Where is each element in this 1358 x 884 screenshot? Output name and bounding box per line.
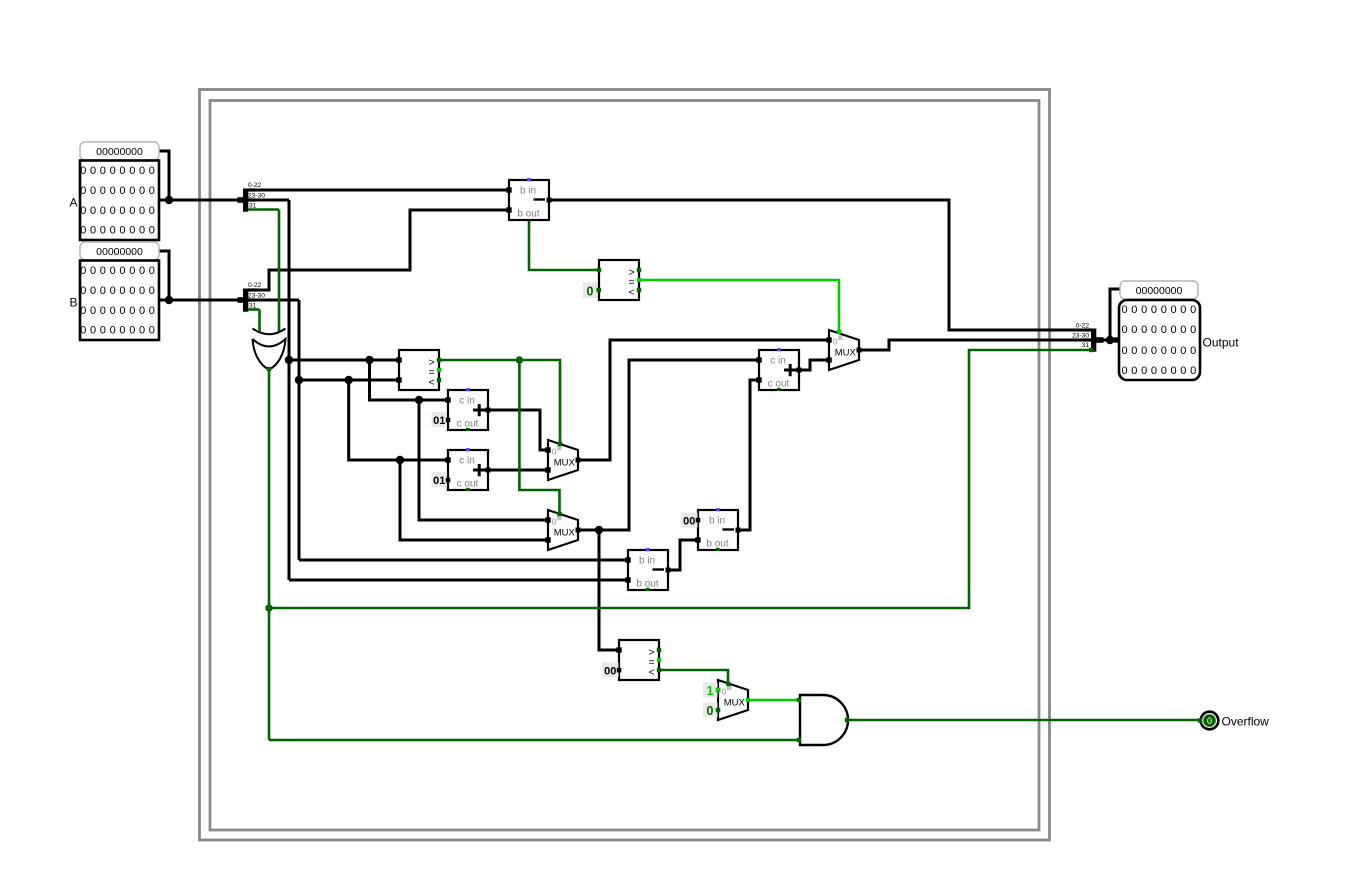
svg-text:0: 0 bbox=[707, 704, 714, 718]
node B junction bbox=[165, 296, 173, 304]
wire comparator U5 greater output to mux M2 select bbox=[439, 360, 560, 444]
node sign junction bbox=[265, 604, 272, 611]
adder A1 bbox=[448, 388, 488, 431]
svg-text:b out: b out bbox=[517, 208, 539, 219]
svg-text:B: B bbox=[70, 296, 78, 310]
wire end caps bright green bbox=[637, 278, 841, 702]
svg-text:MUX: MUX bbox=[835, 348, 857, 359]
wire Output probe tap bbox=[1110, 289, 1120, 340]
wire mux M2 output to mux M1 bbox=[578, 340, 829, 460]
wire subtractor U6 output to subtractor U7 bbox=[668, 540, 698, 570]
wire B exp branch to mux M3 bbox=[400, 460, 548, 540]
svg-text:0: 0 bbox=[833, 336, 838, 346]
node mux M3 output junction bbox=[595, 526, 603, 534]
mux M4 bbox=[718, 680, 748, 720]
wire A exp to comparator U5 bbox=[289, 359, 399, 362]
svg-text:1: 1 bbox=[707, 684, 714, 698]
probe B hex value bbox=[80, 242, 159, 260]
mux M1 bbox=[829, 330, 859, 370]
svg-text:c out: c out bbox=[768, 378, 790, 389]
wire end caps green bbox=[267, 268, 1202, 742]
wire B bits 0-22 up jog bbox=[246, 210, 509, 290]
wire mux M3 output to adder A3 bbox=[578, 360, 759, 530]
svg-text:Output: Output bbox=[1203, 336, 1240, 350]
svg-text:Overflow: Overflow bbox=[1222, 715, 1270, 729]
wire sign to AND gate bbox=[269, 739, 799, 742]
svg-text:b out: b out bbox=[636, 578, 658, 589]
svg-text:23-30: 23-30 bbox=[248, 292, 265, 299]
wire mux M3 branch to comparator U8 bbox=[599, 530, 619, 650]
wire A exp to subtractor U6 bbox=[289, 579, 628, 582]
comparator U2 bbox=[599, 260, 641, 300]
svg-text:<: < bbox=[428, 377, 434, 389]
wire AND gate output to Overflow pin bbox=[847, 719, 1200, 722]
svg-text:b in: b in bbox=[520, 186, 536, 197]
and gate G1 bbox=[800, 695, 848, 745]
svg-text:0: 0 bbox=[552, 516, 557, 526]
constant C7 value 0 (mux M4 input 1) bbox=[703, 703, 720, 718]
subtractor U1 bbox=[509, 178, 549, 220]
adder A2 bbox=[448, 448, 488, 491]
input pin B bbox=[80, 261, 159, 341]
wire subtractor U7 output to adder A3 bbox=[738, 380, 759, 530]
subtractor U7 bbox=[698, 508, 738, 551]
circuit border frame inner bbox=[210, 101, 1039, 831]
svg-text:0: 0 bbox=[1207, 716, 1212, 726]
wire mux M4 output to AND gate bbox=[748, 699, 799, 702]
wire A exp branch down to adder bbox=[370, 360, 449, 400]
svg-text:31: 31 bbox=[1082, 342, 1090, 349]
wire subtractor U1 output to output merger bbox=[549, 200, 1092, 330]
svg-text:b in: b in bbox=[639, 556, 655, 567]
svg-text:31: 31 bbox=[249, 303, 257, 310]
constant C1 value 0 (comparator U2 input) bbox=[583, 282, 601, 298]
svg-text:01: 01 bbox=[433, 415, 445, 427]
wire sign bit to output merger bbox=[269, 350, 1092, 608]
probe A hex value bbox=[80, 142, 159, 160]
wire A exp branch to mux M3 bbox=[419, 400, 548, 520]
svg-text:0-22: 0-22 bbox=[248, 282, 262, 289]
svg-text:00000000: 00000000 bbox=[96, 146, 143, 158]
wire B exp branch down to adder A2 bbox=[349, 380, 448, 460]
circuit border frame outer bbox=[200, 90, 1050, 841]
constant C6 value 1 (mux M4 input 0) bbox=[703, 683, 720, 698]
svg-text:01: 01 bbox=[433, 475, 445, 487]
node Output junction bbox=[1106, 336, 1114, 344]
svg-text:MUX: MUX bbox=[554, 528, 576, 539]
svg-text:00000000: 00000000 bbox=[1136, 285, 1183, 297]
node B exp junction 2 bbox=[345, 376, 353, 384]
wire B probe tap bbox=[159, 251, 169, 300]
adder A3 bbox=[759, 348, 799, 391]
wire B 23-30 vertical trunk bbox=[298, 300, 301, 560]
node B exp junction 3 bbox=[396, 456, 404, 464]
svg-text:b out: b out bbox=[706, 538, 728, 549]
wire B output to splitter bbox=[159, 299, 245, 302]
node B exp junction 1 bbox=[295, 376, 303, 384]
wire adder A2 output to mux M2 bbox=[488, 469, 548, 472]
wire A sign bit to xor bbox=[278, 210, 281, 333]
svg-text:0-22: 0-22 bbox=[248, 182, 262, 189]
splitter S1 (input A) bbox=[238, 188, 280, 211]
svg-text:c out: c out bbox=[457, 418, 479, 429]
wire adder A3 output to mux M1 bbox=[799, 360, 829, 370]
node A junction bbox=[165, 196, 173, 204]
wire comparator U2 equal output to mux M1 select bbox=[639, 280, 839, 333]
svg-text:23-30: 23-30 bbox=[1072, 333, 1089, 340]
svg-text:MUX: MUX bbox=[724, 698, 746, 709]
wire end caps black bbox=[396, 187, 1119, 652]
wire subtractor U1 borrow-out to comparator U2 bbox=[529, 220, 599, 270]
constant C4 value 00 (subtractor U7 input) bbox=[681, 513, 700, 528]
output pin Overflow bbox=[1201, 712, 1219, 730]
constant C5 value 00 (comparator U8 input) bbox=[602, 663, 621, 678]
wire B exp to comparator U5 bbox=[299, 379, 399, 382]
mux M3 bbox=[548, 510, 578, 550]
xor gate X1 bbox=[253, 329, 286, 370]
svg-text:23-30: 23-30 bbox=[248, 192, 265, 199]
constant C3 value 01 (adder A2 input) bbox=[432, 472, 451, 487]
svg-text:0: 0 bbox=[722, 686, 727, 696]
subtractor U6 bbox=[628, 548, 668, 591]
mux M2 bbox=[548, 440, 578, 480]
constant C2 value 01 (adder A1 input) bbox=[432, 412, 451, 427]
svg-text:b in: b in bbox=[709, 516, 725, 527]
wire A bits 0-22 to subtractor U1 bbox=[246, 189, 509, 192]
svg-text:00: 00 bbox=[683, 516, 695, 528]
wire A output to splitter bbox=[159, 199, 245, 202]
wire mux M1 output to output merger bbox=[859, 340, 1092, 350]
svg-text:c in: c in bbox=[770, 356, 786, 367]
svg-text:00: 00 bbox=[604, 666, 616, 678]
wire B sign bit to xor bbox=[258, 310, 261, 333]
svg-text:<: < bbox=[648, 667, 654, 679]
wire A probe tap bbox=[159, 151, 169, 200]
svg-text:c out: c out bbox=[457, 478, 479, 489]
output pin Output bbox=[1119, 300, 1200, 380]
node A exp junction 3 bbox=[415, 396, 423, 404]
node A exp junction 1 bbox=[285, 356, 293, 364]
node comparator U5 greater junction bbox=[516, 356, 523, 363]
svg-text:0: 0 bbox=[552, 446, 557, 456]
comparator U8 bbox=[619, 640, 661, 680]
wire A bits 23-30 horizontal bbox=[246, 199, 289, 202]
svg-text:A: A bbox=[70, 196, 78, 210]
node A exp junction 2 bbox=[365, 356, 373, 364]
splitter S2 (input B) bbox=[238, 288, 260, 311]
svg-text:c in: c in bbox=[459, 396, 475, 407]
input pin A bbox=[80, 161, 159, 241]
svg-text:0-22: 0-22 bbox=[1076, 322, 1090, 329]
wire A 23-30 vertical trunk bbox=[288, 200, 291, 580]
probe Output hex value bbox=[1120, 281, 1198, 299]
wire comparator U8 less output to mux M4 select bbox=[659, 670, 728, 684]
wire adder A1 output to mux M2 bbox=[488, 410, 548, 450]
splitter S3 (output merger) bbox=[1084, 328, 1104, 351]
svg-text:00000000: 00000000 bbox=[96, 246, 143, 258]
wire B exp to subtractor U6 bbox=[299, 559, 628, 562]
wire comparator U5 greater branch to mux M3 select bbox=[519, 360, 559, 514]
svg-text:31: 31 bbox=[249, 203, 257, 210]
wire xor sign vertical bbox=[268, 369, 271, 740]
svg-text:<: < bbox=[628, 287, 634, 299]
svg-text:MUX: MUX bbox=[554, 458, 576, 469]
comparator U5 bbox=[399, 350, 441, 390]
wire output merger to Output pin bbox=[1096, 339, 1119, 342]
svg-text:0: 0 bbox=[587, 284, 594, 298]
svg-text:c in: c in bbox=[459, 456, 475, 467]
wire B bits 23-30 horizontal bbox=[246, 299, 299, 302]
